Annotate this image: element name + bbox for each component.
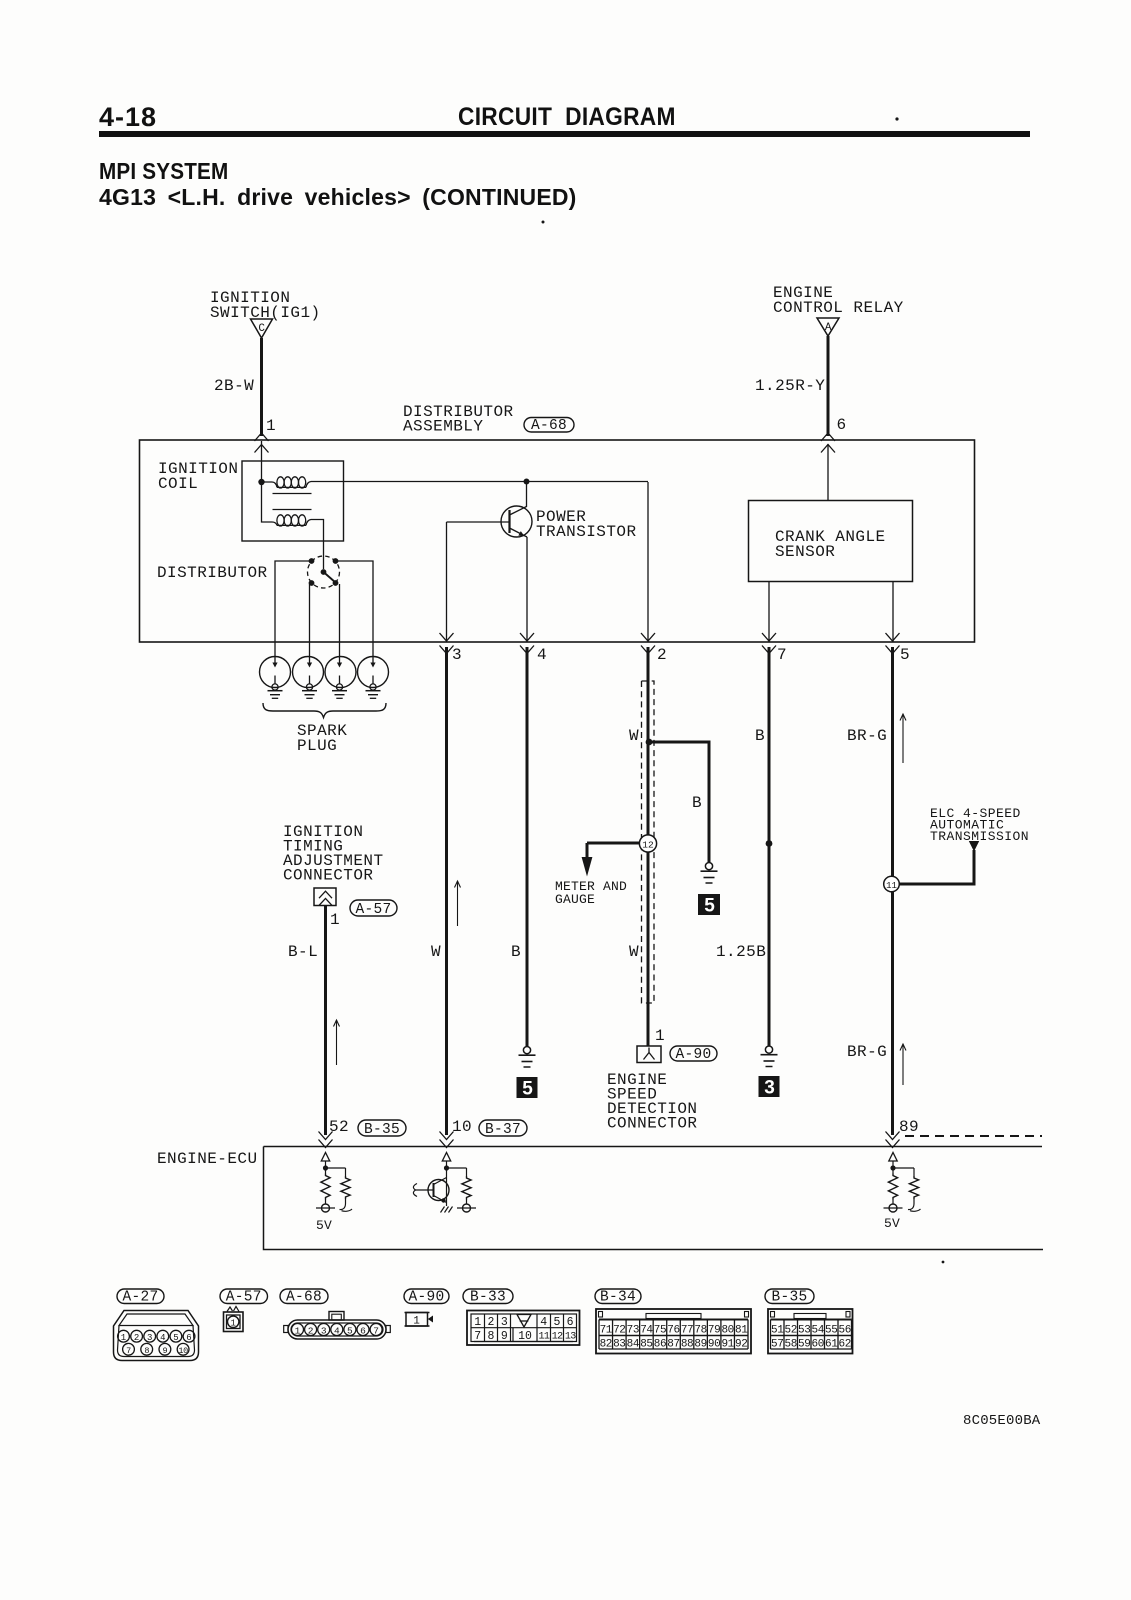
svg-text:3: 3 <box>764 1078 775 1099</box>
svg-text:2B-W: 2B-W <box>214 377 254 395</box>
svg-text:10: 10 <box>178 1346 188 1356</box>
svg-text:6: 6 <box>186 1333 191 1343</box>
svg-text:2: 2 <box>308 1325 314 1336</box>
svg-text:B-34: B-34 <box>600 1289 636 1305</box>
svg-text:W: W <box>431 943 441 961</box>
svg-text:54: 54 <box>812 1325 825 1337</box>
svg-text:4: 4 <box>334 1325 340 1336</box>
svg-text:B-33: B-33 <box>470 1289 506 1305</box>
svg-text:79: 79 <box>708 1325 720 1337</box>
svg-text:78: 78 <box>694 1325 706 1337</box>
svg-text:58: 58 <box>785 1338 797 1350</box>
svg-text:8: 8 <box>488 1330 495 1343</box>
svg-text:62: 62 <box>839 1338 851 1350</box>
svg-text:81: 81 <box>735 1325 748 1337</box>
svg-text:83: 83 <box>613 1338 625 1350</box>
svg-text:B: B <box>511 943 521 961</box>
svg-text:56: 56 <box>839 1325 851 1337</box>
svg-text:GAUGE: GAUGE <box>555 892 595 907</box>
svg-text:11: 11 <box>538 1331 549 1342</box>
svg-text:89: 89 <box>899 1118 919 1136</box>
svg-text:5V: 5V <box>884 1216 900 1231</box>
svg-text:5: 5 <box>553 1316 560 1329</box>
svg-text:4: 4 <box>540 1316 547 1329</box>
svg-text:1: 1 <box>413 1316 420 1328</box>
svg-text:ASSEMBLY: ASSEMBLY <box>403 418 483 436</box>
svg-text:7: 7 <box>373 1325 379 1336</box>
svg-text:CONNECTOR: CONNECTOR <box>607 1115 697 1133</box>
svg-text:74: 74 <box>640 1325 653 1337</box>
svg-text:87: 87 <box>667 1338 679 1350</box>
svg-text:4: 4 <box>537 646 547 664</box>
svg-text:52: 52 <box>785 1325 797 1337</box>
svg-text:92: 92 <box>735 1338 747 1350</box>
svg-text:75: 75 <box>654 1325 666 1337</box>
svg-text:91: 91 <box>721 1338 734 1350</box>
svg-text:5V: 5V <box>316 1218 332 1233</box>
svg-text:3: 3 <box>501 1316 508 1329</box>
svg-text:BR-G: BR-G <box>847 1043 887 1061</box>
svg-text:57: 57 <box>771 1338 783 1350</box>
svg-text:3: 3 <box>147 1333 152 1343</box>
svg-text:13: 13 <box>565 1331 576 1342</box>
svg-text:W: W <box>629 727 639 745</box>
svg-text:80: 80 <box>721 1325 733 1337</box>
svg-text:84: 84 <box>627 1338 640 1350</box>
svg-text:52: 52 <box>329 1118 349 1136</box>
svg-text:8: 8 <box>144 1346 149 1356</box>
svg-text:12: 12 <box>642 840 654 851</box>
svg-text:CONTROL RELAY: CONTROL RELAY <box>773 299 904 317</box>
svg-text:A-68: A-68 <box>531 418 567 434</box>
svg-text:BR-G: BR-G <box>847 727 887 745</box>
svg-text:C: C <box>258 323 265 335</box>
svg-text:1: 1 <box>330 911 340 929</box>
svg-text:TRANSMISSION: TRANSMISSION <box>930 829 1029 844</box>
svg-text:1: 1 <box>295 1325 301 1336</box>
svg-text:A-90: A-90 <box>675 1047 711 1063</box>
svg-text:ENGINE-ECU: ENGINE-ECU <box>157 1150 258 1168</box>
svg-text:TRANSISTOR: TRANSISTOR <box>536 523 637 541</box>
svg-text:10: 10 <box>518 1330 532 1343</box>
svg-text:4: 4 <box>160 1333 165 1343</box>
svg-text:B-L: B-L <box>288 943 318 961</box>
svg-text:B: B <box>692 794 702 812</box>
svg-text:6: 6 <box>360 1325 366 1336</box>
svg-text:7: 7 <box>126 1346 131 1356</box>
svg-text:5: 5 <box>704 896 715 917</box>
svg-text:1: 1 <box>230 1319 235 1329</box>
svg-text:9: 9 <box>163 1346 168 1356</box>
svg-text:5: 5 <box>900 646 910 664</box>
svg-text:7: 7 <box>474 1330 481 1343</box>
svg-text:SENSOR: SENSOR <box>775 543 835 561</box>
svg-text:1: 1 <box>121 1333 126 1343</box>
svg-text:1.25R-Y: 1.25R-Y <box>755 377 825 395</box>
svg-text:77: 77 <box>681 1325 693 1337</box>
svg-text:11: 11 <box>886 881 897 891</box>
svg-text:1.25B: 1.25B <box>716 943 766 961</box>
svg-text:51: 51 <box>771 1325 784 1337</box>
svg-text:53: 53 <box>798 1325 810 1337</box>
svg-text:A-57: A-57 <box>226 1289 262 1305</box>
svg-text:1: 1 <box>655 1027 665 1045</box>
svg-text:82: 82 <box>600 1338 612 1350</box>
svg-text:2: 2 <box>657 646 667 664</box>
svg-text:CONNECTOR: CONNECTOR <box>283 867 373 885</box>
svg-text:B: B <box>755 727 765 745</box>
svg-text:2: 2 <box>134 1333 139 1343</box>
svg-text:60: 60 <box>812 1338 824 1350</box>
svg-text:7: 7 <box>777 646 787 664</box>
svg-text:1: 1 <box>474 1316 481 1329</box>
svg-text:86: 86 <box>654 1338 666 1350</box>
svg-text:76: 76 <box>667 1325 679 1337</box>
svg-text:73: 73 <box>627 1325 639 1337</box>
svg-text:61: 61 <box>825 1338 838 1350</box>
svg-text:B-35: B-35 <box>364 1122 400 1138</box>
svg-text:8C05E00BA: 8C05E00BA <box>963 1413 1041 1429</box>
svg-text:85: 85 <box>640 1338 652 1350</box>
svg-text:A-90: A-90 <box>408 1289 444 1305</box>
svg-text:A-27: A-27 <box>122 1289 158 1305</box>
svg-text:59: 59 <box>798 1338 810 1350</box>
svg-text:12: 12 <box>552 1331 563 1342</box>
svg-text:55: 55 <box>825 1325 837 1337</box>
svg-text:B-35: B-35 <box>771 1289 807 1305</box>
svg-text:90: 90 <box>708 1338 720 1350</box>
svg-text:COIL: COIL <box>158 475 198 493</box>
svg-text:5: 5 <box>347 1325 353 1336</box>
svg-text:6: 6 <box>837 416 847 434</box>
svg-text:3: 3 <box>321 1325 327 1336</box>
svg-text:89: 89 <box>694 1338 706 1350</box>
svg-text:1: 1 <box>266 417 276 435</box>
svg-text:5: 5 <box>522 1079 533 1100</box>
svg-text:W: W <box>629 943 639 961</box>
svg-text:A-57: A-57 <box>355 902 391 918</box>
svg-text:PLUG: PLUG <box>297 737 337 755</box>
svg-text:72: 72 <box>613 1325 625 1337</box>
svg-text:2: 2 <box>488 1316 495 1329</box>
svg-text:3: 3 <box>452 646 462 664</box>
svg-text:88: 88 <box>681 1338 693 1350</box>
svg-text:SWITCH(IG1): SWITCH(IG1) <box>210 304 321 322</box>
svg-text:A: A <box>825 322 832 334</box>
svg-text:71: 71 <box>600 1325 613 1337</box>
svg-text:A-68: A-68 <box>286 1289 322 1305</box>
svg-text:B-37: B-37 <box>485 1122 521 1138</box>
svg-text:10: 10 <box>452 1118 472 1136</box>
svg-text:9: 9 <box>501 1330 508 1343</box>
svg-text:DISTRIBUTOR: DISTRIBUTOR <box>157 564 268 582</box>
svg-text:6: 6 <box>567 1316 574 1329</box>
svg-text:5: 5 <box>173 1333 178 1343</box>
